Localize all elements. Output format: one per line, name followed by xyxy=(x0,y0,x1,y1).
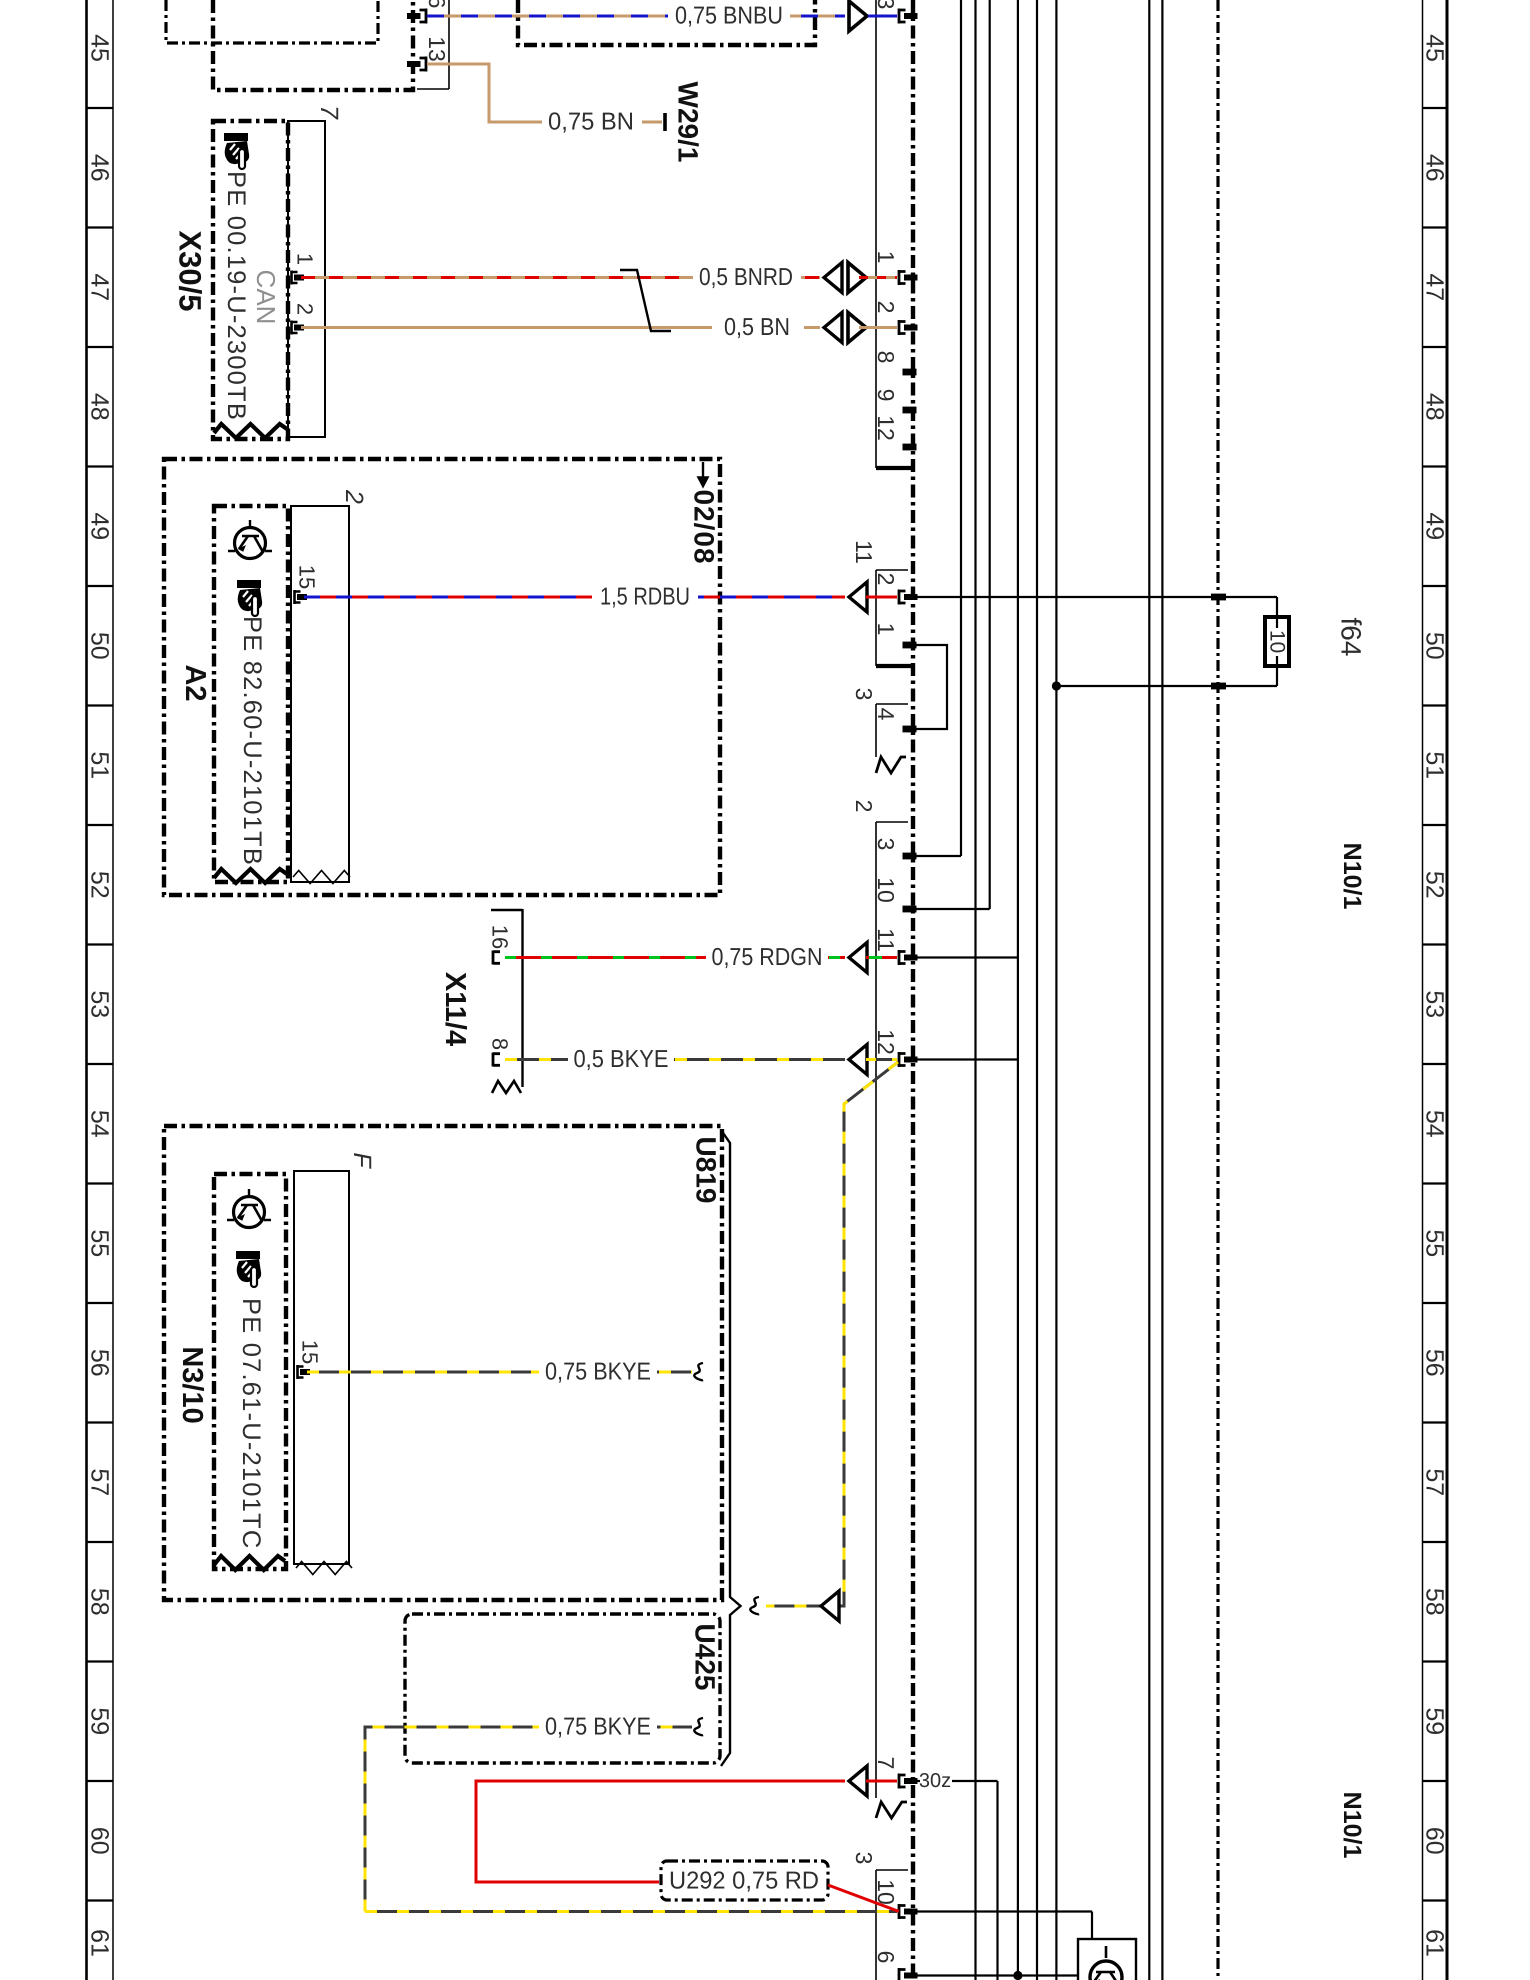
wire 0,75 BKYE (U425) xyxy=(365,1727,692,1912)
pin 10 (conn 3) xyxy=(899,1904,918,1919)
svg-text:1: 1 xyxy=(873,623,899,636)
svg-text:48: 48 xyxy=(86,393,114,421)
wire 0,5 BN xyxy=(301,326,820,329)
pin 1 CAN-H xyxy=(899,270,918,285)
svg-text:10: 10 xyxy=(873,877,899,903)
svg-text:0,75 BNBU: 0,75 BNBU xyxy=(675,3,783,30)
svg-text:55: 55 xyxy=(86,1229,114,1257)
curl N3/10 wire xyxy=(694,1363,703,1380)
svg-text:N10/1: N10/1 xyxy=(1338,843,1366,910)
wire pin12 to bus xyxy=(913,1058,1018,1060)
component X30/5 box xyxy=(213,121,288,439)
svg-text:59: 59 xyxy=(86,1707,114,1735)
pin 16 xyxy=(493,951,500,965)
pin 8 xyxy=(493,1053,500,1067)
svg-text:11: 11 xyxy=(873,928,899,952)
svg-text:8: 8 xyxy=(873,351,899,364)
svg-text:2: 2 xyxy=(873,573,899,586)
svg-text:55: 55 xyxy=(1421,1229,1449,1257)
wire 30z red xyxy=(476,1781,845,1882)
svg-text:U425: U425 xyxy=(690,1624,721,1691)
wire pin11 to bus xyxy=(913,956,1018,958)
connector bracket N10/1 top xyxy=(875,0,877,468)
svg-text:12: 12 xyxy=(873,1029,899,1055)
junction dot xyxy=(1052,681,1061,690)
svg-text:PE 07.61-U-2101TC: PE 07.61-U-2101TC xyxy=(237,1298,265,1549)
pin 11 (conn 2) xyxy=(899,950,918,965)
pin 2 (conn 11) xyxy=(899,590,918,605)
svg-text:15: 15 xyxy=(295,565,320,589)
svg-text:0,75 BN: 0,75 BN xyxy=(548,109,634,136)
svg-text:49: 49 xyxy=(1421,512,1449,540)
thin zigzag N3/10 xyxy=(296,1562,352,1575)
optional-equipment box around BNBU wire xyxy=(518,0,815,45)
wire 0,5 BKYE xyxy=(505,1058,845,1061)
svg-text:0,75 RDGN: 0,75 RDGN xyxy=(712,944,823,971)
wire pin7 30z internal xyxy=(913,1780,920,1782)
svg-text:47: 47 xyxy=(86,273,114,301)
pin 13 xyxy=(407,57,426,72)
wire pin6 internal xyxy=(913,1974,1078,1976)
connector bracket 2 xyxy=(875,822,877,1798)
svg-text:3: 3 xyxy=(873,0,899,9)
svg-text:56: 56 xyxy=(1421,1349,1449,1377)
fuse boundary pin bottom xyxy=(1211,683,1226,690)
svg-text:61: 61 xyxy=(86,1929,114,1957)
svg-text:0,75 BKYE: 0,75 BKYE xyxy=(545,1714,651,1741)
wire 1,5 RDBU xyxy=(304,596,845,599)
pin 12 (conn 2) xyxy=(899,1052,918,1067)
svg-text:45: 45 xyxy=(86,34,114,62)
wire U292 to pin10 diagonal xyxy=(828,1885,899,1912)
svg-text:0,5 BNRD: 0,5 BNRD xyxy=(699,264,793,291)
component A2 box xyxy=(214,506,288,882)
svg-text:10: 10 xyxy=(873,1879,899,1905)
svg-text:N3/10: N3/10 xyxy=(176,1346,208,1423)
hand icon N3/10 xyxy=(236,1251,261,1287)
bottom component icon xyxy=(1090,1946,1122,1980)
svg-text:8: 8 xyxy=(488,1038,513,1050)
svg-text:f64: f64 xyxy=(1336,618,1367,657)
svg-text:3: 3 xyxy=(851,688,877,701)
connector X11/4 bracket xyxy=(521,909,523,1087)
svg-text:U292 0,75 RD: U292 0,75 RD xyxy=(669,1868,819,1895)
svg-text:1: 1 xyxy=(293,253,318,265)
svg-text:56: 56 xyxy=(86,1349,114,1377)
connector rect N3/10 xyxy=(294,1171,349,1564)
svg-text:53: 53 xyxy=(1421,990,1449,1018)
ground terminal W29/1 xyxy=(663,113,667,131)
svg-text:54: 54 xyxy=(1421,1110,1449,1138)
wire 0,75 BN xyxy=(427,64,662,122)
label box U292 0,75 RD xyxy=(661,1861,828,1900)
svg-text:7: 7 xyxy=(315,105,343,120)
N10/1 inner boundary line xyxy=(1216,0,1219,1980)
svg-text:46: 46 xyxy=(1421,154,1449,182)
svg-text:N10/1: N10/1 xyxy=(1338,1792,1366,1859)
svg-text:51: 51 xyxy=(1421,751,1449,779)
pin 6 (conn 3) xyxy=(899,1968,918,1980)
pin 2 X30/5 xyxy=(292,321,305,335)
wire pin10 to bus xyxy=(989,0,991,909)
pin 15 N3/10 xyxy=(298,1365,311,1379)
svg-text:13: 13 xyxy=(424,36,450,62)
svg-text:52: 52 xyxy=(1421,871,1449,899)
svg-text:11: 11 xyxy=(851,540,877,564)
svg-text:58: 58 xyxy=(1421,1588,1449,1616)
connector bracket 3 xyxy=(875,704,877,757)
jumper pin1-pin4 xyxy=(907,645,947,729)
pin 6 (cut) xyxy=(407,9,426,24)
wire 0,75 BKYE (N3/10) xyxy=(307,1371,692,1374)
pin 9 xyxy=(903,407,917,414)
svg-text:48: 48 xyxy=(1421,393,1449,421)
curl U819 wire exit xyxy=(750,1597,759,1614)
page ref arrow 02/08 xyxy=(699,462,708,486)
svg-text:16: 16 xyxy=(488,925,513,949)
fuse f64 xyxy=(1265,617,1289,666)
svg-text:15: 15 xyxy=(298,1340,323,1364)
pin 4 (conn 3) xyxy=(903,726,917,733)
pin 12 (unused) xyxy=(903,444,917,451)
curl U425 wire xyxy=(694,1718,703,1735)
fuse boundary pin top xyxy=(1211,594,1226,601)
zigzag connector 2 xyxy=(876,1802,907,1818)
circle icon A2 xyxy=(228,520,272,559)
wire BKYE to pin10 xyxy=(365,1910,897,1913)
svg-text:54: 54 xyxy=(86,1110,114,1138)
zigzag X30/5 xyxy=(214,424,287,438)
svg-text:CAN: CAN xyxy=(251,270,281,325)
svg-text:9: 9 xyxy=(873,389,899,402)
module box upper-left outer xyxy=(166,0,378,43)
thin zigzag A2 xyxy=(293,871,350,884)
pin 3 (conn 2) xyxy=(903,853,917,860)
svg-text:0,75 BKYE: 0,75 BKYE xyxy=(545,1359,651,1386)
pin 1 (conn 11) xyxy=(903,642,917,649)
svg-text:02/08: 02/08 xyxy=(689,489,720,564)
option boundary U425 xyxy=(405,1614,720,1763)
svg-text:0,5 BN: 0,5 BN xyxy=(724,314,790,341)
wire pin2 to fuse f64 xyxy=(913,596,1277,598)
option boundary U819 xyxy=(164,1126,722,1600)
svg-text:PE 82.60-U-2101TB: PE 82.60-U-2101TB xyxy=(238,616,266,866)
pin 2 CAN-L xyxy=(899,320,918,335)
variant brace U819/U425 xyxy=(721,1130,741,1766)
pin 3 (top, cut) xyxy=(899,9,918,24)
svg-text:2: 2 xyxy=(851,800,877,813)
svg-text:30z: 30z xyxy=(919,1770,951,1792)
svg-text:PE 00.19-U-2300TB: PE 00.19-U-2300TB xyxy=(222,171,250,421)
svg-text:52: 52 xyxy=(86,871,114,899)
svg-text:49: 49 xyxy=(86,512,114,540)
hand icon A2 xyxy=(237,580,262,616)
connector bracket 3 bottom xyxy=(875,1870,877,1980)
zigzag connector 3 xyxy=(876,757,906,773)
left ruler xyxy=(85,0,88,1980)
svg-text:50: 50 xyxy=(86,632,114,660)
wire 0,5 BNRD xyxy=(301,276,820,279)
svg-text:6: 6 xyxy=(873,1951,899,1964)
svg-text:U819: U819 xyxy=(691,1137,722,1204)
svg-text:3: 3 xyxy=(873,838,899,851)
pin 10 (conn 2) xyxy=(903,906,917,913)
junction dot pin6/bus xyxy=(1013,1971,1022,1980)
control unit N10/1 boundary xyxy=(911,0,915,1980)
hand icon X30/5 xyxy=(224,133,249,169)
connector bracket upper-left xyxy=(448,0,450,89)
svg-text:2: 2 xyxy=(873,301,899,314)
svg-text:58: 58 xyxy=(86,1588,114,1616)
pin 7 (30z) xyxy=(899,1774,918,1789)
svg-text:0,5 BKYE: 0,5 BKYE xyxy=(574,1046,669,1073)
bottom component box xyxy=(1078,1939,1136,1980)
svg-text:60: 60 xyxy=(86,1827,114,1855)
svg-text:W29/1: W29/1 xyxy=(673,82,704,163)
svg-text:46: 46 xyxy=(86,154,114,182)
wire pin3 to bus xyxy=(960,0,962,856)
right ruler xyxy=(1422,0,1424,1980)
svg-text:X11/4: X11/4 xyxy=(439,972,471,1046)
zigzag X11/4 xyxy=(492,1081,521,1093)
connector bracket 11 xyxy=(875,570,877,666)
wire pin10 internal to component xyxy=(913,1910,1092,1912)
svg-text:12: 12 xyxy=(873,415,899,441)
connector pair symbols xyxy=(824,263,842,293)
svg-text:59: 59 xyxy=(1421,1707,1449,1735)
svg-text:3: 3 xyxy=(851,1852,877,1865)
circle icon N3/10 xyxy=(227,1189,271,1228)
svg-text:53: 53 xyxy=(86,990,114,1018)
svg-text:F: F xyxy=(348,1152,376,1169)
wire BKYE branch down to U819 xyxy=(766,1062,898,1606)
svg-text:4: 4 xyxy=(873,708,899,721)
svg-text:1,5 RDBU: 1,5 RDBU xyxy=(600,584,690,611)
svg-text:6: 6 xyxy=(424,0,450,8)
svg-text:45: 45 xyxy=(1421,34,1449,62)
svg-text:2: 2 xyxy=(340,489,368,504)
svg-text:51: 51 xyxy=(86,751,114,779)
svg-text:60: 60 xyxy=(1421,1827,1449,1855)
twisted pair symbol xyxy=(620,270,671,331)
zigzag N3/10 xyxy=(214,1556,285,1570)
svg-text:61: 61 xyxy=(1421,1929,1449,1957)
svg-text:1: 1 xyxy=(873,251,899,264)
system boundary A2 outer xyxy=(164,459,720,895)
svg-text:10: 10 xyxy=(1266,630,1289,653)
connector rect X30/5 xyxy=(288,121,325,437)
svg-text:57: 57 xyxy=(86,1468,114,1496)
wire fuse to bus junction xyxy=(1056,685,1277,687)
svg-text:50: 50 xyxy=(1421,632,1449,660)
pin 8 xyxy=(903,369,917,376)
wire 0,75 BNBU xyxy=(427,15,845,18)
connector rect A2 xyxy=(291,506,349,882)
wire 0,75 RDGN xyxy=(505,956,845,959)
svg-text:7: 7 xyxy=(873,1757,899,1770)
internal bus wires N10/1 xyxy=(974,0,976,1980)
pin 1 X30/5 xyxy=(292,271,305,285)
svg-text:47: 47 xyxy=(1421,273,1449,301)
zigzag A2 xyxy=(214,869,287,883)
svg-text:57: 57 xyxy=(1421,1468,1449,1496)
component N3/10 box xyxy=(214,1174,286,1569)
svg-text:A2: A2 xyxy=(179,664,211,701)
svg-text:2: 2 xyxy=(293,303,318,315)
svg-text:X30/5: X30/5 xyxy=(173,230,208,311)
module box upper-left inner xyxy=(213,0,413,90)
pin 15 A2 xyxy=(295,590,308,604)
